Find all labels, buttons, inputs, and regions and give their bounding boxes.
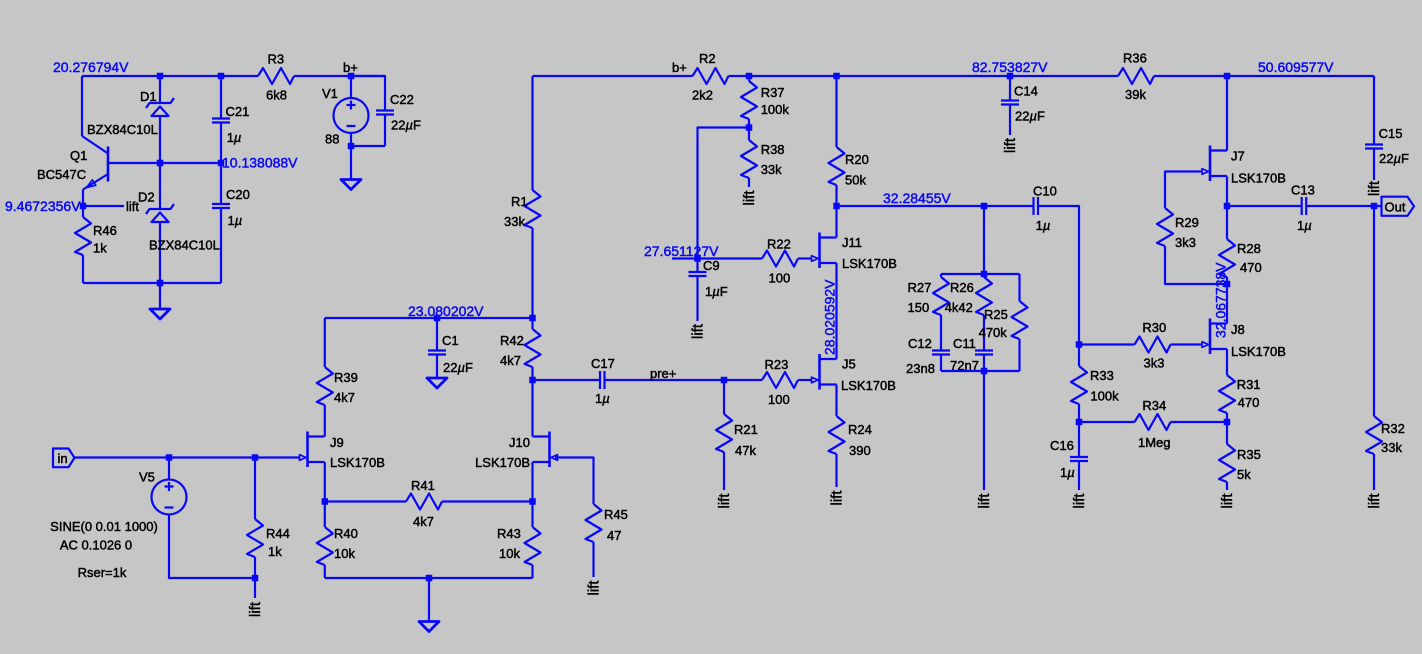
- svg-text:R1: R1: [511, 194, 528, 209]
- capacitor C13: [1301, 197, 1303, 215]
- wire R39 top lead: [324, 318, 326, 367]
- wire R31 bottom lead: [1226, 413, 1228, 422]
- wire C20 top lead: [220, 163, 222, 204]
- wire C10 right lead and down: [1038, 206, 1079, 366]
- junction Q1 emitter node: [80, 203, 87, 210]
- svg-text:5k: 5k: [1237, 467, 1251, 482]
- junction RC network top: [981, 271, 988, 278]
- svg-text:150: 150: [908, 300, 930, 315]
- svg-text:BZX84C10L: BZX84C10L: [87, 122, 158, 137]
- resistor R28: [1219, 239, 1235, 277]
- svg-text:R28: R28: [1237, 241, 1261, 256]
- junction R32 top at out wire: [1371, 203, 1378, 210]
- svg-text:R22: R22: [767, 237, 791, 252]
- svg-text:R39: R39: [334, 370, 358, 385]
- svg-text:LSK170B: LSK170B: [475, 455, 530, 470]
- svg-text:R21: R21: [734, 422, 758, 437]
- wire C9 top lead: [696, 259, 698, 273]
- wire lift stub at Q1 emitter: [83, 205, 124, 207]
- wire ground rail bottom: [325, 577, 533, 579]
- svg-text:4k7: 4k7: [334, 390, 355, 405]
- svg-text:Rser=1k: Rser=1k: [78, 565, 127, 580]
- svg-text:R29: R29: [1175, 215, 1199, 230]
- svg-text:R25: R25: [984, 307, 1008, 322]
- svg-text:10k: 10k: [334, 546, 355, 561]
- svg-text:BZX84C10L: BZX84C10L: [149, 238, 220, 253]
- wire in net: [75, 456, 300, 458]
- wire R35 top lead: [1226, 422, 1228, 444]
- wire R46 top lead: [82, 206, 84, 217]
- wire R1 top lead: [531, 76, 533, 190]
- resistor R21: [716, 414, 732, 452]
- svg-text:23n8: 23n8: [906, 361, 935, 376]
- wire C13 to Out port: [1306, 205, 1382, 207]
- svg-text:1µ: 1µ: [228, 213, 243, 228]
- resistor R46: [75, 217, 91, 255]
- svg-text:1k: 1k: [268, 544, 282, 559]
- wire R37 top lead: [748, 76, 750, 81]
- junction R33/R34/C16: [1076, 419, 1083, 426]
- resistor R26: [976, 277, 992, 315]
- wire bottom of supply block: [83, 282, 221, 284]
- wire R33 bottom lead: [1078, 404, 1080, 422]
- svg-text:R24: R24: [848, 422, 872, 437]
- svg-text:b+: b+: [672, 60, 687, 75]
- junction V5/R44 bottom: [252, 575, 259, 582]
- JFET J9 LSK170B: [306, 432, 309, 468]
- svg-text:32.28455V: 32.28455V: [883, 190, 951, 206]
- wire C14 top lead: [1009, 76, 1011, 101]
- svg-text:R37: R37: [761, 85, 785, 100]
- svg-text:lift: lift: [716, 493, 733, 509]
- wire D1 top lead: [159, 76, 161, 103]
- svg-text:J9: J9: [330, 435, 344, 450]
- junction R20 top: [833, 73, 840, 80]
- wire V5 bottom lead: [169, 515, 255, 579]
- svg-text:10k: 10k: [499, 546, 520, 561]
- JFET J7 LSK170B: [1209, 146, 1212, 182]
- transistor Q1 BC547C: [82, 136, 160, 190]
- wire R46 bottom lead: [82, 255, 84, 283]
- wire 32.28V node horizontal: [837, 205, 1034, 207]
- svg-text:4k42: 4k42: [945, 300, 973, 315]
- wire R40 bottom lead: [324, 565, 326, 578]
- wire RC network bottom rail: [941, 370, 1020, 372]
- wire Q1 emitter to node: [82, 190, 84, 207]
- svg-text:R23: R23: [765, 357, 789, 372]
- resistor R30: [1135, 337, 1171, 353]
- svg-text:J10: J10: [509, 435, 530, 450]
- resistor R25: [1012, 301, 1028, 339]
- svg-text:lift: lift: [1071, 493, 1088, 509]
- svg-text:C21: C21: [226, 104, 250, 119]
- wire D1 bottom lead: [159, 116, 161, 163]
- wire J7 gate to R29: [1165, 172, 1201, 209]
- wire R28 top lead: [1226, 206, 1228, 239]
- capacitor C20: [212, 203, 230, 205]
- wire R20 top lead: [835, 76, 837, 147]
- diode D2 BZX84C10L zener: [146, 204, 174, 214]
- junction ground rail: [426, 575, 433, 582]
- svg-text:100: 100: [769, 271, 791, 286]
- diode D1 BZX84C10L zener: [146, 98, 174, 108]
- wire b+ rail left segment: [533, 75, 693, 77]
- svg-text:J7: J7: [1231, 149, 1245, 164]
- junction C21/C20 node: [218, 160, 225, 167]
- resistor R39: [317, 367, 333, 405]
- junction R26 branch top: [981, 203, 988, 210]
- wire J11 source to J5 drain (28.02V net): [835, 263, 837, 359]
- wire b+ rail middle segment: [729, 75, 1119, 77]
- svg-text:C14: C14: [1014, 84, 1038, 99]
- svg-text:lift: lift: [690, 323, 707, 339]
- svg-text:50.609577V: 50.609577V: [1258, 59, 1334, 75]
- svg-text:R30: R30: [1142, 320, 1166, 335]
- wire J7 source lead: [1226, 177, 1228, 207]
- svg-text:C22: C22: [390, 92, 414, 107]
- wire pre+ net: [605, 379, 763, 381]
- wire C22 top lead: [351, 76, 385, 111]
- junction R37/R38 node: [746, 124, 753, 131]
- JFET J8 LSK170B: [1209, 319, 1212, 355]
- wire R23 to J5 gate: [798, 379, 811, 381]
- svg-text:39k: 39k: [1125, 87, 1146, 102]
- resistor R38: [741, 140, 757, 178]
- wire J7 drain lead: [1226, 76, 1228, 151]
- svg-text:pre+: pre+: [650, 366, 676, 381]
- svg-text:R31: R31: [1237, 377, 1261, 392]
- svg-text:lift: lift: [741, 190, 758, 206]
- svg-text:AC 0.1026 0: AC 0.1026 0: [60, 538, 132, 553]
- svg-text:1k: 1k: [93, 241, 107, 256]
- svg-text:390: 390: [849, 443, 871, 458]
- junction R44 top: [252, 454, 259, 461]
- port in: [53, 449, 75, 468]
- junction J7 drain node: [1224, 73, 1231, 80]
- svg-text:50k: 50k: [845, 173, 866, 188]
- resistor R45: [586, 504, 602, 542]
- capacitor C17: [599, 371, 601, 389]
- junction D1 top: [157, 73, 164, 80]
- svg-text:R35: R35: [1237, 447, 1261, 462]
- svg-text:J11: J11: [842, 235, 862, 250]
- wire V1 top lead: [350, 76, 352, 98]
- resistor R36: [1118, 68, 1154, 84]
- junction J10 source / R43 / R41: [529, 498, 536, 505]
- resistor R22: [762, 251, 798, 267]
- svg-text:R20: R20: [845, 152, 869, 167]
- svg-text:1µF: 1µF: [705, 284, 728, 299]
- svg-text:J8: J8: [1231, 322, 1245, 337]
- svg-text:470: 470: [1240, 260, 1262, 275]
- wire R29 bottom lead: [1165, 246, 1227, 284]
- resistor R40: [317, 527, 333, 565]
- svg-text:R38: R38: [761, 142, 785, 157]
- capacitor C21: [212, 117, 230, 119]
- svg-text:C12: C12: [908, 336, 932, 351]
- wire 23.08V node horizontal: [325, 317, 533, 319]
- resistor R41: [406, 494, 442, 510]
- svg-text:C9: C9: [703, 258, 720, 273]
- svg-text:6k8: 6k8: [266, 88, 287, 103]
- resistor R44: [247, 519, 263, 557]
- svg-text:R40: R40: [334, 526, 358, 541]
- svg-text:C17: C17: [591, 356, 615, 371]
- svg-text:in: in: [58, 451, 68, 466]
- svg-text:1µ: 1µ: [1297, 218, 1312, 233]
- svg-text:D2: D2: [138, 190, 155, 205]
- wire V1 bottom to C22: [351, 145, 385, 147]
- wire R43 top lead: [531, 502, 533, 528]
- svg-text:3k3: 3k3: [1144, 356, 1165, 371]
- svg-text:1µ: 1µ: [1060, 465, 1075, 480]
- junction R31/R35/R34: [1224, 419, 1231, 426]
- wire R41 left lead: [325, 500, 406, 502]
- svg-text:2k2: 2k2: [692, 88, 713, 103]
- wire R38 leads: [748, 128, 750, 141]
- svg-text:R34: R34: [1142, 398, 1166, 413]
- svg-text:100k: 100k: [1090, 389, 1119, 404]
- wire R21 top lead: [723, 380, 725, 414]
- junction b+ at V1: [348, 73, 355, 80]
- wire R30 row left: [1079, 343, 1135, 345]
- capacitor C22: [376, 109, 394, 111]
- junction R20 bottom / J11 drain: [833, 203, 840, 210]
- wire V1 bottom lead: [350, 133, 352, 146]
- resistor R1: [525, 190, 541, 228]
- resistor R43: [525, 527, 541, 565]
- junction V5 top: [166, 454, 173, 461]
- wire Q1 base net to C21/C20 column: [160, 162, 221, 164]
- svg-text:4k7: 4k7: [500, 353, 521, 368]
- junction V1 minus node: [348, 143, 355, 150]
- svg-text:9.4672356V: 9.4672356V: [5, 198, 81, 214]
- svg-text:R3: R3: [268, 52, 285, 67]
- svg-text:R46: R46: [93, 223, 117, 238]
- svg-text:lift: lift: [1002, 137, 1019, 153]
- svg-text:R36: R36: [1123, 51, 1147, 66]
- svg-text:BC547C: BC547C: [37, 167, 86, 182]
- junction C21 top: [218, 73, 225, 80]
- wire R34 row left: [1079, 421, 1135, 423]
- wire lift stem below R44: [254, 578, 256, 598]
- svg-text:1µ: 1µ: [227, 130, 242, 145]
- svg-text:33k: 33k: [1381, 440, 1402, 455]
- wire R1 bottom lead: [531, 228, 533, 318]
- junction J7 source / out node: [1224, 203, 1231, 210]
- svg-text:R43: R43: [497, 526, 521, 541]
- svg-text:100: 100: [768, 392, 790, 407]
- wire R44 top lead: [254, 458, 256, 520]
- svg-text:R45: R45: [604, 507, 628, 522]
- wire C14 bottom lead: [1009, 105, 1011, 136]
- wire C22 bottom lead: [384, 115, 386, 147]
- wire R43 bottom lead: [531, 565, 533, 578]
- svg-text:V5: V5: [139, 470, 155, 485]
- svg-text:R27: R27: [908, 280, 932, 295]
- junction base node at D1/D2: [157, 160, 164, 167]
- svg-text:R26: R26: [950, 280, 974, 295]
- svg-text:D1: D1: [140, 89, 157, 104]
- resistor R42: [525, 329, 541, 367]
- svg-text:R41: R41: [411, 478, 435, 493]
- svg-text:20.276794V: 20.276794V: [53, 59, 129, 75]
- junction C9 top: [694, 255, 701, 262]
- svg-text:LSK170B: LSK170B: [842, 256, 897, 271]
- svg-text:LSK170B: LSK170B: [330, 455, 385, 470]
- svg-text:R33: R33: [1090, 368, 1114, 383]
- wire R32 bottom lead: [1373, 454, 1375, 490]
- svg-text:R2: R2: [699, 51, 716, 66]
- junction D2 anode bottom: [157, 280, 164, 287]
- JFET J11 LSK170B: [818, 233, 821, 269]
- svg-text:22µF: 22µF: [1379, 151, 1409, 166]
- capacitor C11: [975, 349, 993, 351]
- resistor R3: [258, 68, 294, 84]
- svg-text:C10: C10: [1033, 184, 1057, 199]
- wire C1 bottom stem: [436, 355, 438, 379]
- svg-text:23.080202V: 23.080202V: [408, 303, 484, 319]
- wire C21 top lead: [220, 76, 222, 119]
- capacitor C15: [1365, 143, 1383, 145]
- wire R37 bottom lead: [748, 119, 750, 128]
- wire R30 to J8 gate: [1171, 343, 1202, 345]
- voltage source V5: [152, 480, 187, 515]
- svg-text:lift: lift: [586, 580, 603, 596]
- wire b+ rail right segment: [1154, 75, 1374, 77]
- svg-text:lift: lift: [976, 493, 993, 509]
- wire R24 bottom lead: [835, 454, 837, 487]
- svg-text:R42: R42: [500, 333, 524, 348]
- svg-text:27.651127V: 27.651127V: [644, 243, 719, 259]
- capacitor C14: [1001, 99, 1019, 101]
- svg-text:lift: lift: [1366, 180, 1383, 196]
- wire R32 column: [1373, 206, 1375, 416]
- svg-text:47: 47: [607, 528, 621, 543]
- svg-text:C1: C1: [442, 333, 459, 348]
- resistor R24: [829, 416, 845, 454]
- junction R30 row at 1079: [1076, 341, 1083, 348]
- resistor R27: [933, 277, 949, 315]
- resistor R37: [741, 81, 757, 119]
- svg-text:22µF: 22µF: [1015, 108, 1045, 123]
- capacitor C9: [689, 271, 707, 273]
- resistor R35: [1219, 444, 1235, 482]
- ground under C1: [427, 378, 447, 388]
- svg-text:22µF: 22µF: [443, 360, 473, 375]
- svg-text:lift: lift: [247, 601, 264, 617]
- wire V5 top lead: [168, 458, 170, 480]
- svg-text:88: 88: [325, 132, 339, 147]
- resistor R32: [1366, 416, 1382, 454]
- resistor R23: [762, 372, 798, 388]
- svg-text:V1: V1: [322, 86, 338, 101]
- wire C20 bottom lead: [220, 208, 222, 283]
- resistor R2: [693, 68, 729, 84]
- svg-text:C20: C20: [226, 187, 250, 202]
- wire D2 top lead: [159, 163, 161, 209]
- wire J5 source lead: [835, 385, 837, 417]
- wire R37 node to C9 column: [698, 128, 750, 259]
- svg-text:C16: C16: [1050, 438, 1074, 453]
- wire C16 top lead: [1078, 422, 1080, 457]
- wire R45 bottom lead: [592, 542, 594, 577]
- wire R44 bottom lead: [254, 557, 256, 578]
- JFET J10 LSK170B mirrored: [548, 432, 551, 468]
- junction C17 tap: [529, 377, 536, 384]
- svg-text:47k: 47k: [735, 443, 756, 458]
- wire J10 source lead: [531, 462, 533, 502]
- wire C9 bottom lead: [696, 276, 698, 321]
- junction R1/R42 node: [529, 315, 536, 322]
- svg-text:1µ: 1µ: [1036, 218, 1051, 233]
- port Out: [1382, 197, 1415, 216]
- svg-text:C11: C11: [953, 336, 976, 351]
- wire J9 source lead: [324, 462, 326, 502]
- svg-text:SINE(0 0.01 1000): SINE(0 0.01 1000): [50, 519, 158, 534]
- wire J11 drain lead: [835, 206, 837, 238]
- junction J9 source / R40 / R41: [322, 498, 329, 505]
- svg-text:28.020592V: 28.020592V: [822, 279, 838, 355]
- capacitor C10: [1032, 197, 1034, 215]
- wire R41 right lead: [442, 500, 533, 502]
- svg-text:lift: lift: [1366, 493, 1383, 509]
- svg-text:470: 470: [1238, 395, 1260, 410]
- svg-text:100k: 100k: [761, 102, 790, 117]
- wire R42 top lead: [531, 318, 533, 329]
- svg-text:Q1: Q1: [70, 148, 87, 163]
- svg-text:C13: C13: [1291, 183, 1315, 198]
- wire rail down to C15: [1373, 76, 1375, 145]
- junction C1 top: [434, 315, 441, 322]
- junction C14 top: [1007, 73, 1014, 80]
- svg-text:4k7: 4k7: [413, 514, 434, 529]
- svg-text:10.138088V: 10.138088V: [222, 155, 298, 171]
- svg-text:82.753827V: 82.753827V: [972, 59, 1048, 75]
- resistor R20: [829, 147, 845, 185]
- svg-text:LSK170B: LSK170B: [1231, 344, 1286, 359]
- wire R28 bottom lead: [1226, 277, 1228, 284]
- wire C1 top lead: [436, 318, 438, 351]
- wire RC bottom to lift: [983, 371, 985, 490]
- junction RC network bottom: [981, 368, 988, 375]
- resistor R31: [1219, 375, 1235, 413]
- svg-text:LSK170B: LSK170B: [1231, 171, 1286, 186]
- wire C16 bottom lead: [1078, 461, 1080, 490]
- wire R39 bottom to J9 drain: [324, 405, 326, 437]
- wire C15 bottom lead: [1373, 149, 1375, 181]
- svg-text:3k3: 3k3: [1175, 235, 1196, 250]
- wire D2 bottom lead: [159, 222, 161, 283]
- svg-text:470k: 470k: [979, 325, 1008, 340]
- svg-text:Out: Out: [1385, 200, 1406, 215]
- svg-text:LSK170B: LSK170B: [841, 378, 896, 393]
- ground under V1: [350, 146, 352, 180]
- wire RC network top rail: [941, 273, 1020, 275]
- wire out node to C13: [1227, 205, 1302, 207]
- svg-text:R44: R44: [266, 526, 290, 541]
- wire R34 to R31/R35 node: [1171, 421, 1228, 423]
- wire R40 top lead: [324, 502, 326, 528]
- capacitor C16: [1070, 456, 1088, 458]
- svg-text:33k: 33k: [504, 214, 525, 229]
- svg-text:J5: J5: [842, 357, 856, 372]
- wire left vertical to Q1 collector: [81, 76, 83, 136]
- wire R42 bottom to J10 drain: [531, 367, 533, 437]
- svg-text:lift: lift: [1219, 493, 1236, 509]
- svg-text:R32: R32: [1381, 421, 1405, 436]
- wire R35 bottom lead: [1226, 482, 1228, 490]
